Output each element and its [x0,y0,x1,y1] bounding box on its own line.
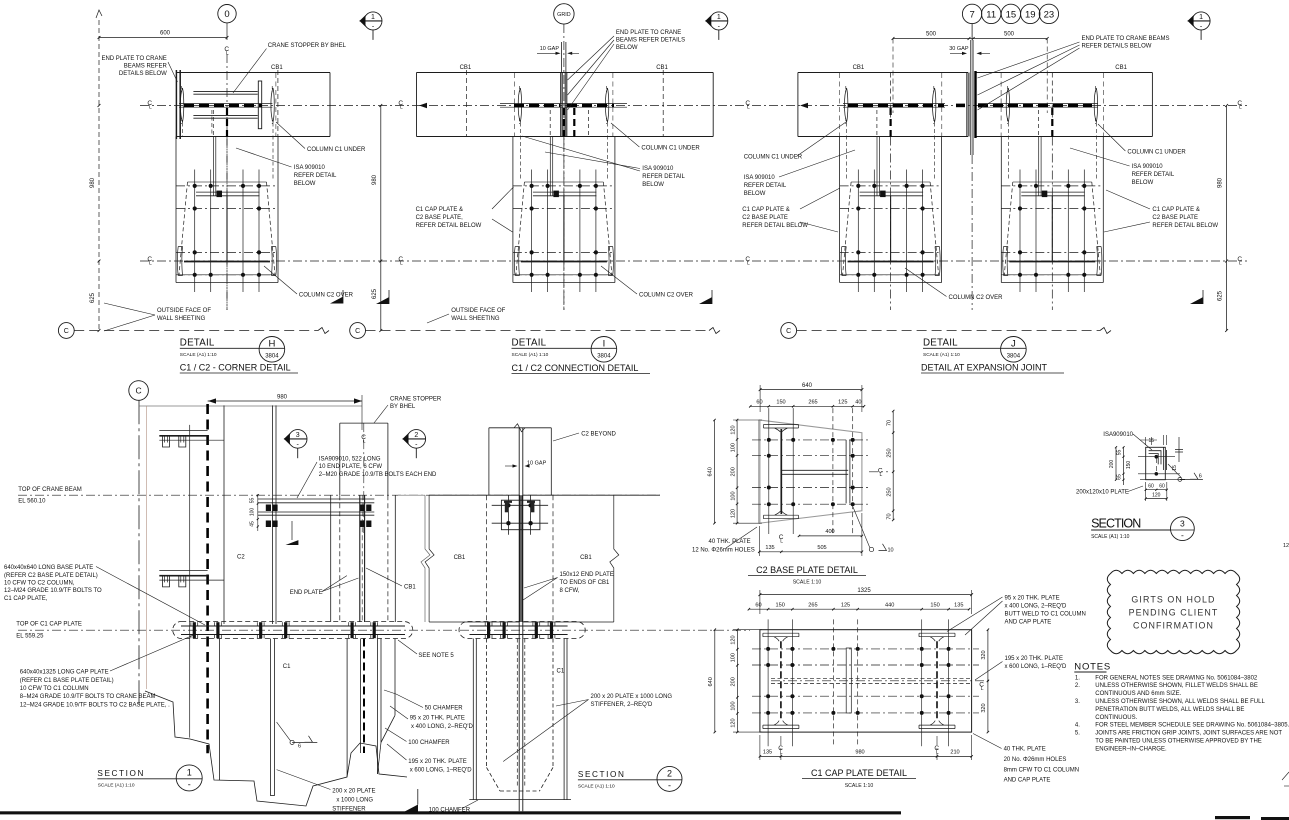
C2 base plate: column I-section bottom flange [764,511,799,519]
C1 cap plate: right dim stack 320/320 [987,630,989,732]
svg-text:10 GAP: 10 GAP [540,46,560,52]
detail I: column C2 assembly [513,137,615,311]
C2 base plate: stiffener plates mid [781,469,848,471]
section 2: C2 beyond box [488,428,490,495]
svg-text:FOR STEEL MEMBER SCHEDULE SEE: FOR STEEL MEMBER SCHEDULE SEE DRAWING No… [1095,723,1289,729]
detail I: column hidden lines in beam [563,108,565,137]
C2 base plate: left dim stack 120/100/200/100/120 [736,420,738,523]
svg-text:1: 1 [187,767,192,777]
svg-text:55: 55 [1117,450,1123,456]
svg-text:TOP OF C1 CAP PLATE: TOP OF C1 CAP PLATE [16,622,82,628]
svg-text:40: 40 [855,400,861,406]
C1 cap plate: right column I-section [919,633,955,641]
svg-text:CONTINUOUS.: CONTINUOUS. [1095,715,1137,721]
section area: grid bubble C [129,381,149,401]
svg-text:500: 500 [1004,31,1015,37]
C2 base plate: bolt gauge lines [768,408,770,534]
svg-text:150: 150 [776,603,785,609]
svg-text:END PLATE TO CRANE BEAMS: END PLATE TO CRANE BEAMS [1082,36,1170,42]
svg-text:70: 70 [886,513,892,519]
C2 base plate: bolts [767,438,771,442]
svg-text:JOINTS ARE FRICTION GRIP JOINT: JOINTS ARE FRICTION GRIP JOINTS, JOINT S… [1095,731,1282,737]
detail H: column edge hidden verticals [275,73,277,137]
svg-text:265: 265 [808,603,817,609]
detail I: heavy dashed crane rail centreline [514,104,560,108]
section 1: cap plate bolts [191,622,198,638]
svg-text:195 x 20 THK. PLATE: 195 x 20 THK. PLATE [1005,656,1063,662]
C1 cap plate: overall 640 left [714,630,716,732]
section 1: outside face heavy dashed line [206,404,209,753]
detail J: crane beam CB1 right outline [975,72,1152,74]
svg-text:REFER DETAIL: REFER DETAIL [642,174,685,180]
section 2: hidden stiffener outline [486,639,488,768]
svg-text:CONFIRMATION: CONFIRMATION [1133,621,1214,631]
detail J: CL arrowhead at beam start [800,103,808,108]
svg-text:320: 320 [981,703,987,712]
section 2: CB1 right beam with break [610,495,619,622]
svg-text:135: 135 [763,750,772,756]
svg-text:WALL SHEETING: WALL SHEETING [157,316,206,322]
C2 base plate: column web [780,429,782,514]
svg-text:H: H [268,339,275,350]
svg-text:SCALE (A1) 1:10: SCALE (A1) 1:10 [923,352,960,358]
svg-text:C2 BASE PLATE: C2 BASE PLATE [1152,215,1198,221]
detail J: crane beam CB1 left outline [798,72,968,74]
svg-text:625: 625 [1218,290,1224,301]
svg-text:150: 150 [930,603,939,609]
svg-text:95 x 20 THK. PLATE: 95 x 20 THK. PLATE [1005,596,1060,602]
section 1: weld datum flag [291,521,293,540]
svg-text:250: 250 [886,448,892,457]
section area: grid centreline vertical C [138,400,140,707]
svg-text:END PLATE TO CRANE: END PLATE TO CRANE [616,30,681,36]
svg-text:ISA 909010: ISA 909010 [1132,164,1164,170]
C2 base plate: dim 640 overall top [760,389,862,391]
section 3: bolts [1155,455,1159,459]
detail I: column edge hidden verticals [514,73,516,137]
svg-text:SCALE (A1) 1:10: SCALE (A1) 1:10 [180,352,217,358]
detail H: column C2 assembly [176,137,278,311]
svg-text:640x40x640 LONG BASE PLATE: 640x40x640 LONG BASE PLATE [4,565,93,571]
section 1: CB1 end plate [359,495,361,622]
svg-text:C1 / C2 - CORNER DETAIL: C1 / C2 - CORNER DETAIL [180,363,291,373]
C1 cap plate: bolt gauge verticals [767,619,769,746]
svg-text:3: 3 [296,432,300,439]
section 1: column C2 flanges [223,405,225,624]
svg-text:COLUMN C2 OVER: COLUMN C2 OVER [639,293,694,299]
svg-text:L: L [149,105,152,111]
svg-text:AND CAP PLATE: AND CAP PLATE [1005,620,1052,626]
svg-text:125: 125 [841,603,850,609]
svg-text:-: - [668,780,671,790]
svg-text:x 1000 LONG: x 1000 LONG [336,798,373,804]
svg-text:40 THK. PLATE: 40 THK. PLATE [709,539,751,545]
svg-text:120: 120 [1152,493,1161,499]
detail I: hidden flange verticals [519,123,521,182]
svg-text:CRANE STOPPER: CRANE STOPPER [390,397,442,403]
svg-text:CB1: CB1 [454,555,466,561]
svg-text:C1 CAP PLATE &: C1 CAP PLATE & [416,207,463,213]
detail J: grid line below bubble 7 [971,24,973,39]
svg-text:ISA 909010: ISA 909010 [294,165,326,171]
section 2: web hidden lines [516,639,518,789]
svg-text:ISA 909010: ISA 909010 [744,175,776,181]
section 1: crane stopper box [339,423,341,495]
section cut flag 2 [407,430,426,449]
svg-text:SCALE 1:10: SCALE 1:10 [793,580,822,586]
svg-text:BEAMS REFER: BEAMS REFER [124,64,168,70]
svg-text:L: L [363,439,366,445]
svg-text:C: C [355,328,360,335]
C2 base plate: dim row 60/150/265/125/40 [750,405,864,407]
svg-text:CRANE STOPPER BY BHEL: CRANE STOPPER BY BHEL [268,43,347,49]
section cut flag 1 [710,12,728,30]
svg-text:OUTSIDE FACE OF: OUTSIDE FACE OF [451,308,505,314]
detail H: crane rail edge lines [179,103,272,105]
svg-text:PENETRATION BUTT WELDS, ALL W: PENETRATION BUTT WELDS, ALL WELDS SHALL … [1095,707,1244,713]
svg-text:C2 BASE PLATE: C2 BASE PLATE [742,215,788,221]
detail J: beam end flange curves [845,88,848,122]
svg-text:DETAIL: DETAIL [512,337,547,348]
C1 cap plate: plate outline [760,630,972,732]
svg-text:C: C [786,328,791,335]
svg-text:5.: 5. [1075,731,1080,737]
svg-text:70: 70 [886,420,892,426]
svg-text:L: L [226,51,229,57]
C1 cap plate: dim 1325 overall [760,594,972,596]
section 2: CB1 left beam with break [425,495,434,622]
svg-text:ENGINEER–IN–CHARGE.: ENGINEER–IN–CHARGE. [1095,746,1167,752]
svg-text:505: 505 [817,545,826,551]
svg-text:980: 980 [372,174,378,185]
svg-text:L: L [936,750,939,756]
C2 base plate: plate outline (perspective) [759,420,862,523]
detail I: datum triangles [376,297,389,304]
svg-text:120: 120 [730,509,736,518]
detail J: column C2 assembly left [840,137,942,311]
svg-text:8mm CFW TO C1 COLUMN: 8mm CFW TO C1 COLUMN [1004,768,1079,774]
svg-text:REFER DETAIL BELOW: REFER DETAIL BELOW [416,223,482,229]
C1 cap plate: bolts [766,647,770,651]
svg-text:2–M20 GRADE 10.9/TB BOLTS EACH: 2–M20 GRADE 10.9/TB BOLTS EACH END [319,472,437,478]
detail I: beam end flange curves [518,88,521,122]
detail J: grid bubbles 7 11 15 19 23 [962,4,981,23]
svg-text:120: 120 [731,635,737,644]
svg-text:CB1: CB1 [853,65,865,71]
svg-text:980: 980 [855,750,864,756]
detail J: grid centreline vertical at joint [971,155,973,310]
detail I: crane rail edge lines [500,103,627,105]
detail J: column centrelines dashed [890,73,892,121]
svg-text:2: 2 [667,768,672,778]
svg-text:ISA 909010: ISA 909010 [642,166,674,172]
svg-text:REFER DETAIL: REFER DETAIL [294,173,337,179]
svg-text:1: 1 [371,14,375,21]
detail J: column edge hidden verticals [838,73,840,137]
svg-text:COLUMN C2 OVER: COLUMN C2 OVER [949,295,1004,301]
svg-text:BELOW: BELOW [616,45,638,51]
svg-text:95 x 20 THK. PLATE: 95 x 20 THK. PLATE [410,716,465,722]
svg-text:30 GAP: 30 GAP [949,46,969,52]
stamp: GIRTS ON HOLD wavy border [1107,570,1239,653]
section 2: cap plate bolts [485,622,492,638]
svg-text:C1 CAP PLATE,: C1 CAP PLATE, [4,596,48,602]
detail J: expansion joint end plates [966,73,968,137]
svg-text:200 x 20 PLATE: 200 x 20 PLATE [332,789,375,795]
svg-text:640: 640 [708,677,714,686]
svg-text:C1 CAP PLATE &: C1 CAP PLATE & [1152,207,1199,213]
svg-text:4.: 4. [1075,723,1080,729]
svg-text:7: 7 [969,9,974,20]
svg-text:0: 0 [224,9,229,20]
C2 base plate: weld flag 10 [869,547,873,551]
svg-text:CB1: CB1 [1115,65,1127,71]
svg-text:TOP OF CRANE BEAM: TOP OF CRANE BEAM [18,487,81,493]
svg-text:640: 640 [708,467,714,476]
svg-text:COLUMN C2 OVER: COLUMN C2 OVER [299,293,354,299]
section cut flag 3 [288,430,307,449]
detail J: heavy dashed crane rail centrelines [848,104,944,108]
svg-text:TO BE PAINTED UNLESS OTHERWISE: TO BE PAINTED UNLESS OTHERWISE APPROVED … [1095,739,1262,745]
svg-text:COLUMN C1 UNDER: COLUMN C1 UNDER [1127,150,1186,156]
svg-text:L: L [780,539,783,545]
svg-text:GIRTS ON HOLD: GIRTS ON HOLD [1131,595,1215,605]
svg-text:L: L [880,472,883,478]
C2 base plate: dim 400 [799,535,862,537]
svg-text:C1: C1 [283,664,291,670]
svg-text:100: 100 [250,508,256,517]
C1 cap plate: middle small plate [846,648,851,713]
svg-text:50 CHAMFER: 50 CHAMFER [425,706,464,712]
svg-text:15: 15 [1006,9,1017,20]
svg-text:C2: C2 [237,555,245,561]
detail I: CB1 grid dashed lines [466,70,468,137]
svg-text:10: 10 [888,548,894,554]
section 1: bracket bolts on end plate [360,505,365,512]
sheet border bottom bar [0,811,901,814]
svg-text:DETAIL AT EXPANSION JOINT: DETAIL AT EXPANSION JOINT [921,363,1048,373]
section 1: girt bracket bottom [159,570,224,587]
section 3: weld flag 6 [1178,477,1182,481]
svg-text:L: L [780,750,783,756]
detail J: wall sheeting grid row C [781,323,797,339]
svg-text:ISA909010: ISA909010 [1103,432,1133,438]
section 1: dims 55/100/45 [257,494,259,531]
svg-text:8 CFW,: 8 CFW, [560,588,580,594]
svg-text:CB1: CB1 [656,65,668,71]
svg-text:CB1: CB1 [460,65,472,71]
C2 base plate: right dim stack 70/250/250/70 [892,411,894,520]
svg-text:CB1: CB1 [271,65,283,71]
svg-text:135: 135 [765,545,774,551]
detail H: grid bubble 0 [218,5,236,23]
svg-text:SCALE (A1) 1:10: SCALE (A1) 1:10 [578,783,615,789]
detail H: column hidden lines in beam [226,108,228,137]
svg-text:TO ENDS OF CB1: TO ENDS OF CB1 [560,580,611,586]
svg-text:980: 980 [90,177,96,188]
svg-text:CB1: CB1 [404,585,416,591]
svg-text:x 400 LONG, 2–REQ'D: x 400 LONG, 2–REQ'D [1005,604,1068,610]
svg-text:980: 980 [277,394,288,400]
detail I: grid bubble GRID [554,4,574,24]
svg-text:L: L [981,686,984,692]
detail H: grid centreline vertical [226,54,228,310]
svg-text:BELOW: BELOW [744,191,766,197]
cap plate centreline [18,629,750,631]
section 1: CB1 beam outline [330,495,332,622]
section 3: angle cleat [1149,451,1161,465]
svg-text:-: - [1181,530,1184,540]
svg-text:SCALE (A1) 1:10: SCALE (A1) 1:10 [1091,534,1130,540]
detail I: grid centreline vertical [563,24,565,310]
detail H: hidden flange verticals [211,110,213,137]
svg-text:REFER DETAIL BELOW: REFER DETAIL BELOW [1152,223,1218,229]
svg-text:135: 135 [954,603,963,609]
C1 cap plate: dim row 60/150/265/125/440/150/135 [749,608,969,610]
detail H: dimension 600 [99,37,227,39]
C2 base plate: 95x20 plate right [845,440,847,504]
section 2: bracket bolts [506,503,510,507]
svg-text:100: 100 [731,701,737,710]
section 2: angle cleat dark marks [505,501,509,512]
svg-text:320: 320 [981,650,987,659]
section 1: ISA bracket angle plates [258,498,374,500]
svg-text:400: 400 [825,529,834,535]
column centreline (bottom, y=261) [140,260,1247,262]
svg-text:19: 19 [1025,9,1036,20]
svg-text:265: 265 [808,400,817,406]
svg-text:C2 BEYOND: C2 BEYOND [581,432,616,438]
svg-text:CONTINUOUS AND 6mm SIZE.: CONTINUOUS AND 6mm SIZE. [1095,691,1181,697]
svg-text:2: 2 [414,432,418,439]
svg-text:BEAMS REFER DETAILS: BEAMS REFER DETAILS [616,38,685,44]
svg-text:SCALE (A1) 1:10: SCALE (A1) 1:10 [98,782,135,788]
svg-text:SECTION: SECTION [97,769,145,778]
section cut flag 1 [1192,12,1210,30]
section 3: bottom dims 60/60/120 [1146,489,1167,491]
svg-text:C2 BASE PLATE,: C2 BASE PLATE, [416,215,464,221]
svg-text:SCALE (A1) 1:10: SCALE (A1) 1:10 [512,352,549,358]
section 1: top break edge line [140,405,362,407]
svg-text:REFER DETAIL: REFER DETAIL [1132,172,1175,178]
svg-text:65: 65 [1117,474,1123,480]
svg-text:EL 559.25: EL 559.25 [16,633,44,639]
svg-text:L: L [747,261,750,267]
svg-text:250: 250 [886,487,892,496]
svg-text:SECTION: SECTION [1091,517,1141,531]
detail J: crane rail edge lines [843,103,945,105]
svg-text:440: 440 [885,603,894,609]
section 2: hidden C2 flange verticals above cap [486,495,488,621]
svg-text:BY BHEL: BY BHEL [390,404,416,410]
svg-text:1: 1 [717,14,721,21]
section 1: stiffener plates right [360,639,362,754]
svg-text:200 x 20 PLATE x 1000 LONG: 200 x 20 PLATE x 1000 LONG [591,694,673,700]
svg-text:125: 125 [838,400,847,406]
detail H: left dim line 980/625 [98,104,101,107]
section 1: bracket bolts on C2 flange [266,505,271,512]
svg-text:I: I [603,339,606,350]
C2 base plate: bolt rows dash-dot [752,439,869,441]
svg-text:1: 1 [1199,14,1203,21]
svg-text:3804: 3804 [1007,354,1021,360]
svg-text:10 GAP: 10 GAP [527,461,547,467]
section 1: cap plate (stadium) [173,622,413,639]
detail H: datum triangle [330,297,343,304]
svg-text:REFER DETAIL BELOW: REFER DETAIL BELOW [742,223,808,229]
section 3: bolt row lines [1138,456,1175,458]
svg-text:x 600 LONG, 1–REQ'D: x 600 LONG, 1–REQ'D [1005,664,1068,670]
svg-text:120: 120 [731,718,737,727]
svg-text:OUTSIDE FACE OF: OUTSIDE FACE OF [157,308,211,314]
detail H: crane beam CB1 outline [177,72,330,74]
svg-text:640x40x1325 LONG CAP PLATE: 640x40x1325 LONG CAP PLATE [20,670,109,676]
svg-text:12 No. Φ26mm HOLES: 12 No. Φ26mm HOLES [692,548,755,554]
detail H: beam end flange curves [180,88,183,122]
svg-text:STIFFENER, 2–REQ'D: STIFFENER, 2–REQ'D [591,702,653,708]
svg-text:3804: 3804 [265,354,279,360]
C2 base plate: overall 640 left [714,420,716,523]
svg-text:C1 / C2 CONNECTION DETAIL: C1 / C2 CONNECTION DETAIL [512,363,639,373]
svg-text:UNLESS OTHERWISE SHOWN, FILLET: UNLESS OTHERWISE SHOWN, FILLET WELDS SHA… [1095,683,1258,689]
detail H: crane stopper plates [193,90,257,92]
svg-text:200: 200 [730,467,736,476]
svg-text:END PLATE: END PLATE [290,590,323,596]
section 2: column C1 flanges [472,639,474,800]
svg-text:BELOW: BELOW [294,181,316,187]
svg-text:200: 200 [731,677,737,686]
svg-text:3.: 3. [1075,699,1080,705]
C1 cap plate: left dim stack 120/100/200/100/120 [736,630,738,732]
C1 cap plate: bottom dims 135/980/210 [760,755,972,757]
svg-text:6: 6 [298,744,301,750]
svg-text:COLUMN C1 UNDER: COLUMN C1 UNDER [641,146,700,152]
svg-text:60: 60 [756,400,762,406]
svg-text:J: J [1011,339,1016,350]
detail H: end plate to crane beam [175,70,177,139]
svg-text:L: L [747,105,750,111]
svg-text:625: 625 [90,292,96,303]
svg-text:120: 120 [730,425,736,434]
section 1: column C1 below cap plate [218,639,220,781]
svg-text:SEE NOTE 5: SEE NOTE 5 [418,653,454,659]
svg-text:WALL SHEETING: WALL SHEETING [451,316,500,322]
svg-text:625: 625 [372,288,378,299]
section 1: datum triangle bottom [400,805,418,815]
svg-text:DETAIL: DETAIL [180,337,215,348]
svg-text:L: L [400,105,403,111]
C2 base plate: column I-section top flange [764,425,799,433]
svg-text:100: 100 [731,653,737,662]
svg-text:980: 980 [1218,177,1224,188]
svg-text:20 No. Φ26mm HOLES: 20 No. Φ26mm HOLES [1004,757,1067,763]
svg-text:11: 11 [986,9,996,20]
svg-text:150x12 END PLATE: 150x12 END PLATE [560,572,614,578]
section 1: hidden stopper flange verticals [339,495,341,621]
svg-text:COLUMN C1 UNDER: COLUMN C1 UNDER [744,155,803,161]
svg-text:12–M24 GRADE 10.9/TF BOLTS TO: 12–M24 GRADE 10.9/TF BOLTS TO [4,588,102,594]
C1 cap plate: bolt rows dash-dot [752,648,979,650]
section 2: CB1 end plates centre [518,428,520,812]
svg-text:C1 CAP PLATE &: C1 CAP PLATE & [742,207,789,213]
svg-text:FOR GENERAL NOTES SEE DRAWING: FOR GENERAL NOTES SEE DRAWING No. 506108… [1095,675,1258,681]
svg-text:60: 60 [1148,484,1154,490]
detail J: column hidden lines in beam [889,108,891,137]
svg-text:640: 640 [802,383,813,389]
svg-text:(REFER C1 BASE PLATE DETAIL): (REFER C1 BASE PLATE DETAIL) [20,678,114,684]
svg-text:AND CAP PLATE: AND CAP PLATE [1004,778,1051,784]
svg-text:15: 15 [1172,465,1178,471]
